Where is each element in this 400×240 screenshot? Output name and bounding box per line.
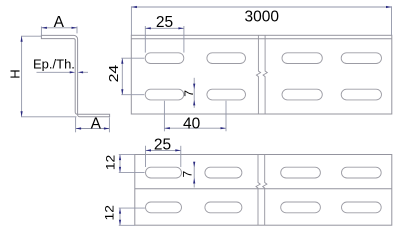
svg-text:A: A bbox=[54, 14, 65, 31]
dimension 24: arrows bbox=[121, 58, 123, 94]
dimension H: extension lines bbox=[21, 36, 77, 117]
Z-profile outline bbox=[41, 35, 109, 116]
top strip slots row 1 bbox=[145, 53, 381, 64]
svg-text:Ep./Th.: Ep./Th. bbox=[33, 56, 75, 71]
dimension 25 top strip: arrows bbox=[145, 27, 184, 29]
bottom strip outline bbox=[135, 155, 392, 226]
bottom strip slots row 1 bbox=[146, 167, 382, 178]
dimension A bottom: extension lines bbox=[76, 117, 110, 132]
dimension H: arrows bbox=[21, 36, 23, 117]
dimension 25 top strip: extension lines bbox=[145, 26, 184, 53]
svg-text:7: 7 bbox=[182, 90, 196, 97]
svg-text:24: 24 bbox=[107, 65, 121, 83]
svg-text:25: 25 bbox=[156, 14, 173, 31]
svg-text:A: A bbox=[91, 116, 102, 133]
dimension 12 upper: extension lines bbox=[119, 155, 145, 173]
dimension 12 lower: arrows bbox=[119, 208, 121, 225]
bottom strip break lines bbox=[256, 155, 267, 226]
Ep./Th. leader line bbox=[37, 71, 89, 73]
top strip upper inner line bbox=[131, 38, 392, 40]
dimension 24: extension lines bbox=[121, 58, 144, 94]
dimension 3000: extension lines bbox=[131, 6, 391, 35]
svg-text:12: 12 bbox=[102, 205, 116, 220]
svg-text:H: H bbox=[7, 69, 22, 78]
Ep./Th. thickness arrows bbox=[70, 71, 83, 73]
top strip slots row 2 bbox=[145, 89, 381, 100]
dimension A bottom: arrows bbox=[76, 127, 110, 129]
svg-text:40: 40 bbox=[183, 115, 201, 132]
dimension 7 bottom strip: arrows bbox=[193, 162, 195, 184]
dimension 12 lower: extension lines bbox=[119, 208, 145, 225]
dimension 25 bottom strip: arrows bbox=[146, 149, 181, 151]
dimension 12 upper: arrows bbox=[119, 155, 121, 173]
top strip outline bbox=[131, 35, 392, 114]
dimension 7 top strip: dimension line bbox=[193, 78, 195, 108]
dimension 25 bottom strip: extension lines bbox=[146, 146, 181, 167]
svg-text:3000: 3000 bbox=[245, 8, 280, 25]
bottom strip slots row 2 bbox=[146, 202, 382, 213]
dimension A top: arrows bbox=[41, 27, 77, 29]
dimension 40: extension lines bbox=[164, 101, 226, 132]
dimension A top: extension lines bbox=[41, 27, 77, 36]
dimension 40: arrows bbox=[164, 127, 226, 129]
top strip break lines bbox=[256, 35, 267, 114]
dimension 3000: arrows bbox=[131, 6, 391, 8]
svg-text:12: 12 bbox=[103, 155, 117, 170]
svg-text:7: 7 bbox=[181, 171, 195, 178]
dimension 7 top strip: arrows bbox=[193, 84, 195, 106]
bottom strip middle line bbox=[135, 188, 392, 190]
dimension 7 bottom strip: dimension line bbox=[193, 162, 195, 188]
svg-text:25: 25 bbox=[154, 137, 171, 154]
